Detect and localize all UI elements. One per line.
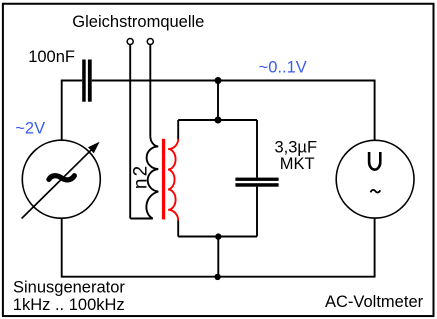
svg-text:MKT: MKT xyxy=(280,155,315,173)
svg-text:AC-Voltmeter: AC-Voltmeter xyxy=(325,293,424,311)
svg-text:n2: n2 xyxy=(130,164,151,190)
svg-text:3,3µF: 3,3µF xyxy=(275,139,318,157)
svg-text:~2V: ~2V xyxy=(15,120,45,138)
svg-text:~0..1V: ~0..1V xyxy=(259,59,307,77)
svg-text:Gleichstromquelle: Gleichstromquelle xyxy=(72,13,204,31)
svg-text:1kHz .. 100kHz: 1kHz .. 100kHz xyxy=(13,296,125,314)
svg-text:100nF: 100nF xyxy=(28,48,75,66)
svg-text:Sinusgenerator: Sinusgenerator xyxy=(13,278,125,296)
